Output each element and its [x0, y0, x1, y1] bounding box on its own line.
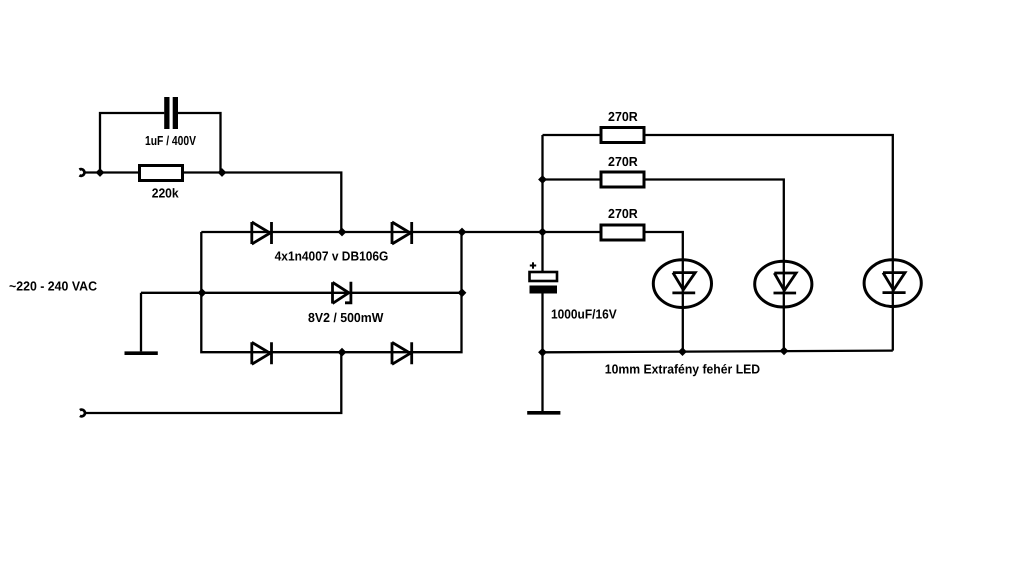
svg-text:270R: 270R [608, 206, 638, 221]
svg-text:4x1n4007 v DB106G: 4x1n4007 v DB106G [275, 249, 389, 264]
svg-text:270R: 270R [608, 154, 638, 169]
svg-text:~220 - 240 VAC: ~220 - 240 VAC [9, 279, 98, 294]
svg-text:8V2 / 500mW: 8V2 / 500mW [308, 310, 384, 325]
svg-text:220k: 220k [152, 186, 180, 201]
svg-text:1uF / 400V: 1uF / 400V [145, 133, 196, 148]
svg-text:10mm Extrafény fehér LED: 10mm Extrafény fehér LED [605, 361, 760, 376]
svg-text:270R: 270R [608, 109, 638, 124]
svg-text:1000uF/16V: 1000uF/16V [551, 307, 617, 322]
